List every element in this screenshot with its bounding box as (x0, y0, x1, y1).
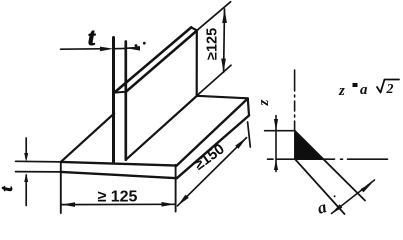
dimension >=125 (web) dimension line (223, 9, 226, 72)
base plate front-bottom edge (61, 172, 177, 178)
dimension t (top) right-pointing arrow (100, 47, 114, 52)
section: a dim upper-right arrow (361, 183, 372, 192)
dimension t (left) bottom extension line (16, 171, 61, 173)
web front-right vertical edge (extended up as extension line) (124, 42, 127, 160)
dimension >=125 (web) lower extension line (197, 65, 231, 95)
dimension t (left) down arrow (24, 153, 28, 162)
base plate front-top edge (61, 162, 177, 166)
section: horizontal centerline (dash-dot) (268, 158, 391, 160)
base plate right-bottom receding edge (177, 116, 249, 179)
stray scan speck on weld line (334, 195, 336, 197)
dimension t (top) line between extension lines (114, 47, 126, 49)
section: z up arrow (274, 160, 278, 170)
svg-text:≥125: ≥125 (205, 28, 221, 60)
base plate right-top receding edge (177, 99, 248, 166)
web top-front closure edge (114, 91, 126, 94)
section: z dim vertical line (275, 116, 277, 172)
web top-back closure edge (191, 27, 197, 30)
svg-text:≥ 125: ≥ 125 (98, 189, 138, 206)
dimension >=150 upper extension line (248, 122, 251, 147)
dimension t (left) lower dim line (25, 175, 27, 206)
section: weld hypotenuse continuation line (295, 131, 365, 201)
dimension t (left) top extension line (16, 160, 61, 163)
dimension >=125 (base width) left extension line (60, 162, 62, 213)
base plate back-right vertical edge (248, 99, 249, 116)
dimension >=125 (base width) right arrow (162, 202, 176, 207)
web top far receding edge (126, 31, 197, 92)
dimension >=150 dim line (178, 138, 247, 206)
section: z down arrow (274, 119, 278, 131)
dimension >=125 (web) down arrow (221, 59, 226, 73)
web top near receding edge (114, 27, 191, 92)
radical sign (377, 80, 399, 93)
dimension t (top) line right part (127, 47, 134, 49)
svg-text:2: 2 (386, 82, 394, 97)
dimension >=125 (base width) dim line (61, 203, 176, 205)
dimension t (top) line left part (61, 48, 100, 50)
section: weld triangle (295, 131, 323, 159)
section: weld left 45-degree line (295, 159, 345, 214)
dimension t (top) left-pointing arrow (127, 46, 140, 51)
dimension >=125 (base width) right extension line (175, 165, 177, 212)
base plate back-top edge (197, 96, 248, 99)
dimension t (top) dash-dot dots (135, 44, 138, 47)
svg-text:z: z (256, 100, 272, 107)
dimension >=125 (web) up arrow (222, 9, 227, 23)
dimension >=125 (web) upper extension line (197, 2, 230, 30)
section: z upper extension tick (265, 130, 295, 132)
web front-left vertical edge (extended up as extension line) (112, 38, 115, 162)
svg-text:z: z (338, 83, 345, 99)
dimension t (left) upper dim line (25, 138, 27, 159)
web/base joint receding line (right) (126, 96, 197, 160)
section: a dim line (332, 180, 375, 214)
dimension >=150 lower arrow (177, 195, 189, 206)
dimension >=125 (base width) left arrow (61, 202, 75, 207)
web back vertical edge (196, 31, 198, 96)
section: vertical centerline (dash-dot) (294, 70, 296, 131)
svg-text:a: a (360, 82, 368, 98)
section: a dim lower-left arrow (331, 204, 342, 214)
dimension >=150 upper arrow (235, 137, 247, 148)
dimension t (left) up arrow (24, 173, 28, 182)
base plate left-top receding edge (61, 113, 114, 161)
